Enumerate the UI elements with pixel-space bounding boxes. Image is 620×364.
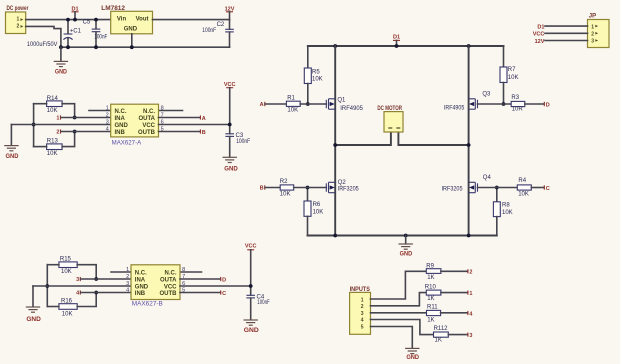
svg-text:2: 2 bbox=[56, 130, 59, 136]
wire left vertical R14-R13 bbox=[33, 104, 35, 147]
svg-text:4: 4 bbox=[469, 311, 473, 317]
svg-text:4: 4 bbox=[106, 126, 109, 132]
junction bbox=[306, 186, 310, 190]
svg-text:10K: 10K bbox=[61, 269, 72, 275]
svg-text:OUTB: OUTB bbox=[160, 291, 178, 297]
svg-text:GND: GND bbox=[224, 166, 238, 172]
junction bbox=[73, 130, 77, 134]
junction bbox=[94, 277, 98, 281]
svg-text:VCC: VCC bbox=[245, 244, 257, 250]
svg-text:2: 2 bbox=[469, 270, 472, 276]
wire J2 pin1 to R9 bbox=[371, 271, 427, 299]
svg-text:GND: GND bbox=[244, 328, 260, 334]
svg-text:R13: R13 bbox=[47, 139, 59, 145]
wire R14 left bbox=[34, 103, 47, 105]
svg-text:OUTB: OUTB bbox=[138, 130, 156, 136]
svg-text:GND: GND bbox=[406, 355, 419, 361]
wire VCC pin6 to VCC net bbox=[159, 124, 230, 126]
wire ground rail bbox=[61, 46, 230, 48]
svg-text:10K: 10K bbox=[280, 192, 291, 198]
ground bbox=[4, 125, 19, 161]
port B bbox=[200, 129, 205, 135]
wire R11 to port 4 bbox=[441, 312, 468, 314]
wire GND row to U3 pin3 bbox=[33, 285, 131, 287]
svg-text:4: 4 bbox=[76, 291, 80, 297]
svg-text:Q2: Q2 bbox=[338, 180, 347, 186]
svg-text:1: 1 bbox=[361, 298, 364, 304]
svg-text:2: 2 bbox=[361, 304, 364, 310]
resistor R3 10R bbox=[511, 95, 525, 113]
svg-text:4: 4 bbox=[361, 318, 364, 324]
wire Q2 drain-source vertical bbox=[334, 145, 336, 236]
svg-text:R4: R4 bbox=[518, 178, 526, 184]
capacitor C1 1000uF/50V bbox=[27, 20, 82, 48]
wire Q3 drain-source vertical bbox=[468, 46, 470, 145]
svg-text:Vin: Vin bbox=[117, 16, 127, 22]
junction bbox=[502, 102, 506, 106]
power port VCC bbox=[224, 82, 236, 133]
resistor R1 10K bbox=[286, 95, 300, 113]
port B bbox=[260, 185, 265, 191]
svg-text:R112: R112 bbox=[434, 326, 449, 332]
svg-text:B: B bbox=[202, 130, 206, 136]
wire H-bridge bottom rail bbox=[308, 235, 497, 237]
svg-text:1000uF/50V: 1000uF/50V bbox=[27, 42, 58, 48]
wire U3 pin8 stub bbox=[180, 271, 202, 273]
wire port B to R2 bbox=[265, 187, 280, 189]
svg-text:GND: GND bbox=[6, 154, 20, 160]
svg-text:+C1: +C1 bbox=[70, 28, 82, 34]
svg-text:N.C.: N.C. bbox=[115, 109, 127, 115]
svg-text:3: 3 bbox=[106, 119, 109, 125]
svg-text:R5: R5 bbox=[312, 70, 320, 76]
svg-text:1: 1 bbox=[591, 24, 594, 30]
svg-text:10K: 10K bbox=[47, 151, 58, 157]
junction bbox=[395, 44, 399, 48]
svg-text:12V: 12V bbox=[535, 39, 545, 45]
svg-text:N.C.: N.C. bbox=[165, 270, 177, 276]
svg-text:R8: R8 bbox=[502, 202, 510, 208]
svg-text:5: 5 bbox=[361, 324, 364, 330]
svg-text:MAX627-A: MAX627-A bbox=[112, 139, 142, 146]
svg-text:100nF: 100nF bbox=[236, 139, 250, 145]
junction bbox=[94, 45, 98, 49]
ground bbox=[244, 320, 260, 334]
svg-text:INA: INA bbox=[115, 116, 126, 122]
junction bbox=[467, 143, 471, 147]
wire Q4 drain-source vertical bbox=[468, 145, 470, 236]
ground bbox=[405, 348, 420, 361]
power port VCC bbox=[245, 244, 257, 295]
wire J1 pin2 to ground rail bbox=[26, 26, 61, 47]
svg-text:A: A bbox=[202, 116, 206, 122]
ground bbox=[223, 157, 239, 172]
svg-text:VCC: VCC bbox=[142, 123, 155, 129]
svg-text:2: 2 bbox=[126, 274, 129, 280]
port 3 bbox=[468, 333, 473, 339]
svg-text:10R: 10R bbox=[512, 106, 524, 112]
wire OUTB to port B bbox=[159, 131, 201, 133]
svg-text:3: 3 bbox=[76, 277, 79, 283]
svg-text:3: 3 bbox=[469, 333, 472, 339]
svg-text:OUTA: OUTA bbox=[138, 116, 155, 122]
svg-text:R14: R14 bbox=[47, 96, 59, 102]
connector J3 JP bbox=[588, 14, 610, 48]
junction bbox=[404, 234, 408, 238]
svg-text:VCC: VCC bbox=[533, 32, 545, 38]
connector J1 DC power bbox=[6, 6, 29, 34]
svg-text:1: 1 bbox=[17, 16, 20, 22]
wire motor right node rail bbox=[398, 132, 468, 145]
junction bbox=[59, 45, 63, 49]
junction bbox=[94, 291, 98, 295]
junction bbox=[94, 18, 98, 22]
wire INB bbox=[61, 131, 111, 133]
ground bbox=[399, 236, 413, 258]
wire J2 pin3 to R11 bbox=[371, 312, 427, 314]
svg-text:R7: R7 bbox=[508, 67, 516, 73]
svg-text:D: D bbox=[546, 102, 550, 108]
svg-text:GND: GND bbox=[55, 69, 68, 75]
ground bbox=[26, 286, 42, 323]
resistor R16 10K bbox=[59, 299, 77, 318]
wire R15 right to INA bbox=[77, 265, 96, 279]
resistor R7 10K bbox=[500, 46, 518, 104]
port D bbox=[544, 102, 549, 109]
wire JP pin1 net D1 bbox=[545, 25, 588, 27]
svg-text:INA: INA bbox=[135, 277, 146, 283]
wire R15 left bbox=[47, 264, 59, 266]
svg-text:JP: JP bbox=[589, 14, 596, 20]
wire J2 pin5 to ground bbox=[371, 327, 413, 349]
svg-text:C: C bbox=[222, 291, 226, 297]
port A bbox=[260, 102, 265, 108]
wire R3 to port D bbox=[525, 103, 544, 105]
capacitor C4 100nF bbox=[246, 294, 270, 319]
wire left vertical R15-R16 bbox=[46, 265, 48, 307]
resistor R112 1K bbox=[434, 326, 449, 343]
svg-text:R2: R2 bbox=[280, 179, 288, 185]
transistor Q2 IRF3205 bbox=[326, 180, 359, 193]
resistor R2 10K bbox=[280, 179, 294, 197]
wire U1 GND pin to ground rail bbox=[131, 34, 133, 47]
junction bbox=[333, 143, 337, 147]
port A bbox=[200, 115, 205, 121]
svg-text:10K: 10K bbox=[287, 107, 298, 113]
wire INA bbox=[61, 117, 111, 119]
svg-text:1: 1 bbox=[469, 291, 472, 297]
svg-text:2: 2 bbox=[17, 24, 20, 30]
wire U2 pin1 stub bbox=[89, 110, 111, 112]
svg-text:1: 1 bbox=[56, 116, 59, 122]
wire OUTA to port A bbox=[159, 117, 201, 119]
port 1 bbox=[468, 291, 473, 297]
svg-text:R9: R9 bbox=[426, 264, 434, 270]
wire J1 pin1 to U1 Vin bbox=[26, 19, 111, 21]
svg-text:GND: GND bbox=[400, 252, 413, 258]
svg-text:8: 8 bbox=[161, 105, 164, 111]
junction bbox=[228, 123, 232, 127]
wire port A to R1 bbox=[265, 103, 286, 105]
wire VCC pin6 to VCC net bbox=[180, 285, 251, 287]
svg-text:2: 2 bbox=[106, 112, 109, 118]
op-amp U2 MAX627-A bbox=[106, 104, 164, 146]
svg-text:10K: 10K bbox=[518, 191, 529, 197]
power port D1 bbox=[393, 35, 400, 47]
wire motor left node rail bbox=[335, 132, 391, 145]
resistor R11 1K bbox=[427, 305, 441, 324]
svg-text:IRF3205: IRF3205 bbox=[338, 186, 360, 192]
wire Q1 drain-source vertical bbox=[334, 46, 336, 145]
power port 12V bbox=[225, 7, 235, 20]
svg-text:MAX627-B: MAX627-B bbox=[132, 301, 163, 308]
op-amp U3 MAX627-B bbox=[126, 265, 185, 308]
svg-text:1K: 1K bbox=[427, 296, 434, 302]
resistor R15 10K bbox=[59, 256, 77, 274]
power port D1 bbox=[71, 7, 78, 20]
wire H-bridge top rail bbox=[308, 45, 504, 47]
svg-text:100nF: 100nF bbox=[94, 35, 107, 41]
junction bbox=[467, 234, 471, 238]
wire J2 pin4 to R112 bbox=[371, 320, 434, 335]
svg-text:B: B bbox=[260, 186, 264, 192]
wire Q4 gate to R4 bbox=[478, 187, 518, 189]
resistor R14 10K bbox=[47, 96, 63, 114]
svg-text:N.C.: N.C. bbox=[135, 270, 147, 276]
regulator U1 LM7812 bbox=[101, 6, 152, 34]
wire R112 to port 3 bbox=[448, 334, 467, 336]
transistor Q4 IRF3205 bbox=[442, 175, 492, 193]
svg-text:10K: 10K bbox=[508, 75, 519, 81]
svg-text:R15: R15 bbox=[60, 256, 72, 262]
svg-text:DC MOTOR: DC MOTOR bbox=[377, 106, 402, 112]
svg-text:10K: 10K bbox=[502, 210, 513, 216]
svg-text:1: 1 bbox=[126, 267, 129, 273]
junction bbox=[45, 284, 49, 288]
resistor R13 10K bbox=[47, 139, 63, 157]
svg-text:Vout: Vout bbox=[136, 16, 149, 22]
svg-text:1K: 1K bbox=[435, 337, 442, 343]
svg-text:GND: GND bbox=[115, 123, 129, 129]
port C bbox=[544, 185, 549, 192]
svg-text:OUTA: OUTA bbox=[160, 277, 177, 283]
svg-text:Q4: Q4 bbox=[483, 175, 492, 181]
svg-text:D: D bbox=[222, 277, 226, 283]
svg-text:R11: R11 bbox=[427, 305, 438, 311]
svg-text:1K: 1K bbox=[427, 275, 434, 281]
wire OUTA to port D bbox=[180, 278, 220, 280]
wire R4 to port C bbox=[531, 187, 544, 189]
svg-text:R6: R6 bbox=[313, 202, 321, 208]
port 3 bbox=[76, 277, 80, 283]
junction bbox=[306, 102, 310, 106]
port 1 bbox=[56, 115, 60, 121]
svg-text:3: 3 bbox=[591, 39, 594, 45]
svg-text:A: A bbox=[260, 102, 264, 108]
svg-text:Q1: Q1 bbox=[337, 97, 346, 103]
svg-text:INB: INB bbox=[115, 130, 126, 136]
junction bbox=[73, 18, 77, 22]
svg-text:Q3: Q3 bbox=[482, 91, 491, 97]
svg-text:C3: C3 bbox=[236, 133, 244, 139]
transistor Q1 IRF4905 bbox=[326, 97, 363, 111]
svg-text:1K: 1K bbox=[427, 317, 434, 323]
port 2 bbox=[468, 269, 473, 275]
capacitor C2 100nF bbox=[202, 20, 234, 48]
svg-text:10K: 10K bbox=[47, 108, 58, 114]
wire INA bbox=[81, 278, 131, 280]
wire U3 pin1 stub bbox=[111, 271, 131, 273]
wire U1 Vout to 12V node bbox=[153, 19, 230, 21]
capacitor C5 100nF bbox=[83, 20, 108, 48]
svg-text:VCC: VCC bbox=[164, 284, 177, 290]
resistor R9 1K bbox=[426, 264, 441, 282]
svg-text:10K: 10K bbox=[313, 210, 324, 216]
svg-text:N.C.: N.C. bbox=[143, 109, 155, 115]
svg-text:10K: 10K bbox=[62, 311, 73, 317]
junction bbox=[467, 44, 471, 48]
wire Q3 gate to R3 bbox=[478, 103, 512, 105]
port C bbox=[221, 290, 226, 296]
svg-text:C5: C5 bbox=[83, 20, 91, 26]
junction bbox=[130, 45, 134, 49]
svg-text:GND: GND bbox=[124, 26, 138, 32]
svg-text:IRF4905: IRF4905 bbox=[444, 106, 465, 112]
junction bbox=[333, 44, 337, 48]
svg-text:D1: D1 bbox=[393, 35, 400, 41]
svg-text:3: 3 bbox=[126, 281, 129, 287]
port D bbox=[221, 277, 226, 283]
wire R2 to Q2 gate bbox=[294, 187, 327, 189]
svg-text:C2: C2 bbox=[217, 22, 225, 28]
wire R14 right to INA bbox=[62, 104, 75, 118]
svg-text:IRF3205: IRF3205 bbox=[442, 186, 464, 192]
wire R16 left bbox=[47, 306, 59, 308]
wire R1 to Q1 gate bbox=[300, 103, 326, 105]
resistor R4 10K bbox=[517, 178, 531, 197]
svg-text:D1: D1 bbox=[537, 25, 544, 31]
svg-text:R10: R10 bbox=[425, 284, 437, 290]
resistor R5 10K bbox=[304, 46, 322, 104]
svg-text:2: 2 bbox=[591, 32, 594, 38]
wire OUTB to port C bbox=[180, 292, 220, 294]
svg-text:DC power: DC power bbox=[7, 6, 29, 12]
connector J2 INPUTS bbox=[350, 287, 371, 334]
ground bbox=[54, 47, 68, 75]
wire JP pin3 net 12V bbox=[545, 40, 588, 42]
wire JP pin2 net VCC bbox=[545, 32, 588, 34]
svg-text:R16: R16 bbox=[61, 299, 73, 305]
resistor R8 10K bbox=[493, 188, 512, 236]
svg-text:1: 1 bbox=[106, 105, 109, 111]
wire R9 to port 2 bbox=[441, 270, 468, 272]
svg-text:8: 8 bbox=[182, 267, 185, 273]
svg-text:INB: INB bbox=[135, 291, 146, 297]
svg-text:IRF4905: IRF4905 bbox=[340, 106, 363, 112]
resistor R10 1K bbox=[425, 284, 441, 302]
svg-text:4: 4 bbox=[126, 287, 129, 293]
transistor Q3 IRF4905 bbox=[444, 91, 491, 111]
junction bbox=[73, 116, 77, 120]
wire GND row to U2 pin3 bbox=[11, 124, 110, 126]
port 4 bbox=[468, 311, 474, 317]
wire R13 left bbox=[34, 146, 47, 148]
wire R13 right to INB bbox=[62, 132, 75, 147]
svg-text:10K: 10K bbox=[312, 76, 323, 82]
wire R16 right to INB bbox=[77, 293, 96, 307]
junction bbox=[66, 18, 70, 22]
junction bbox=[32, 123, 36, 127]
wire INB bbox=[81, 292, 131, 294]
junction bbox=[495, 186, 499, 190]
svg-text:GND: GND bbox=[26, 317, 41, 323]
junction bbox=[66, 45, 70, 49]
resistor R6 10K bbox=[304, 188, 323, 236]
svg-text:R1: R1 bbox=[287, 95, 295, 101]
wire R10 to port 1 bbox=[441, 292, 468, 294]
capacitor C3 100nF bbox=[225, 133, 250, 157]
wire U2 pin8 stub bbox=[159, 110, 183, 112]
svg-text:GND: GND bbox=[135, 284, 149, 290]
wire J2 pin2 to R10 bbox=[371, 293, 427, 306]
junction bbox=[249, 284, 253, 288]
port 4 bbox=[76, 290, 80, 296]
svg-text:3: 3 bbox=[361, 311, 364, 317]
svg-text:C: C bbox=[546, 186, 550, 192]
svg-text:R3: R3 bbox=[511, 95, 519, 101]
svg-text:100nF: 100nF bbox=[202, 28, 216, 34]
svg-text:100nF: 100nF bbox=[257, 300, 270, 306]
motor M1 DC MOTOR bbox=[377, 106, 403, 132]
junction bbox=[333, 234, 337, 238]
port 2 bbox=[56, 129, 60, 135]
